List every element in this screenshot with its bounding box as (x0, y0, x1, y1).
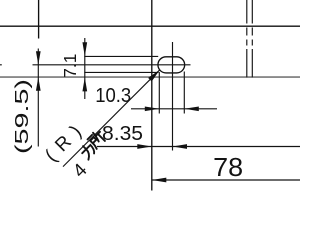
svg-text:78: 78 (213, 154, 243, 182)
svg-text:10.3: 10.3 (95, 85, 131, 107)
svg-text:(59.5): (59.5) (12, 79, 32, 154)
svg-text:8.35: 8.35 (102, 123, 143, 145)
svg-text:7.1: 7.1 (60, 54, 80, 78)
